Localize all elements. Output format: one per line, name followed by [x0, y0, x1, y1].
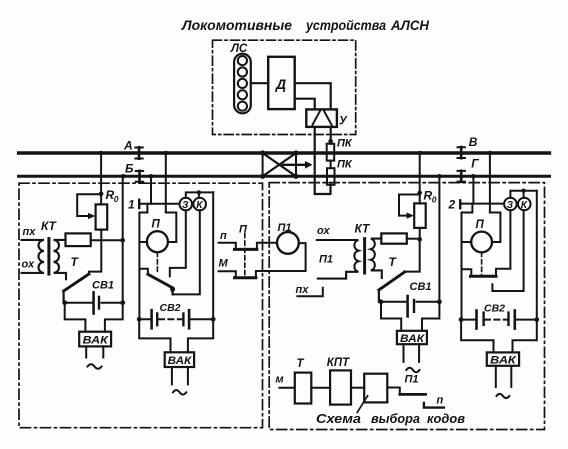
rail bond crossing	[263, 153, 296, 176]
battery СВ2 wire segments	[139, 318, 213, 320]
battery СВ1 short plate (white gap + bar)	[96, 301, 99, 304]
contact П lower (М to П1)	[219, 243, 306, 278]
lamp ЛС cell 1	[238, 56, 247, 65]
lamp unit ЛС body	[234, 54, 251, 114]
node rail В right	[488, 151, 493, 156]
leader line to caption	[357, 396, 367, 413]
wire terminal 1 to lamps	[139, 203, 179, 205]
locomotive equipment enclosure (dash-dot box)	[213, 40, 356, 134]
svg-text:П: П	[476, 219, 485, 231]
svg-text:п: п	[437, 395, 444, 407]
amplifier У triangle	[313, 111, 332, 125]
box КПТ	[330, 370, 351, 404]
insulated joint Г	[458, 171, 465, 182]
battery СВ1-2 short plate	[410, 300, 414, 303]
battery СВ1-2 wire	[381, 301, 439, 303]
receiving coil ПК lower	[327, 168, 335, 185]
resistor Ro1	[96, 204, 108, 229]
wire blade tip down	[62, 291, 64, 303]
node Ro2 top	[417, 191, 422, 196]
node СВ2 left	[137, 317, 142, 322]
node rail Г riser	[471, 174, 476, 179]
wire resistor2 to riser	[407, 238, 420, 240]
wire Ro1 to contact pivot	[89, 230, 101, 275]
rail top	[19, 151, 550, 154]
wire Т to КПТ	[311, 387, 330, 389]
amplifier У box	[306, 109, 337, 127]
transformer КТ1 core	[47, 239, 50, 275]
junction above ПК	[328, 139, 333, 144]
node bottom rail riser2	[437, 174, 442, 179]
battery СВ1-2 long plate	[406, 296, 409, 316]
rectifier ВАК3 box	[397, 331, 427, 344]
wire м to Т box	[279, 387, 294, 389]
lamp К circle	[193, 198, 206, 211]
node on rail A	[99, 151, 104, 156]
svg-text:м: м	[276, 374, 284, 386]
terminal 2 tick	[459, 200, 461, 208]
wire terminal 2 to lamps	[460, 203, 504, 205]
svg-text:Схема: Схема	[316, 411, 361, 426]
node battery right	[120, 300, 125, 305]
box selector	[364, 374, 387, 403]
wire З2 bottom to blade	[496, 210, 510, 276]
wire У to receiving coil ПК upper	[330, 127, 332, 144]
node К2 top	[521, 189, 525, 193]
resistor Ro2 slider loop	[399, 195, 420, 216]
blade tip tick	[172, 288, 174, 295]
svg-text:СВ2: СВ2	[484, 303, 505, 315]
receiving coil ПК upper	[327, 144, 335, 161]
relay П2 bracket	[462, 204, 501, 242]
wire rail В to Ro2	[419, 153, 421, 203]
wire rail Г to relay wire	[472, 176, 474, 203]
stub п output	[424, 403, 444, 408]
relay П armature link (dashed)	[156, 252, 158, 274]
node СВ2 right	[211, 317, 216, 322]
node СВ2-2 left	[459, 317, 464, 322]
svg-text:пх: пх	[296, 284, 310, 296]
node riser2 at resistor wire	[417, 237, 422, 242]
lamp ЛС cell 3	[238, 79, 247, 88]
svg-text:ох: ох	[317, 225, 330, 237]
wire З bottom to front contact	[170, 210, 186, 276]
node battery2 left	[379, 299, 384, 304]
ВАК4 output legs	[496, 366, 512, 387]
caption: Схема выбора кодов	[316, 411, 465, 426]
svg-text:ВАК: ВАК	[490, 355, 517, 367]
wire П2 left riser	[461, 242, 463, 320]
contact blade СВ1 unit2	[379, 272, 405, 290]
svg-text:П1: П1	[405, 374, 419, 386]
resistor series unit2	[381, 233, 407, 243]
AC symbol unit2	[406, 368, 419, 372]
battery СВ2 plates	[150, 310, 153, 328]
lamp З2 circle	[504, 198, 517, 211]
node Ro1 top	[99, 191, 104, 196]
travel direction arrow	[283, 164, 305, 166]
wire rail Г side to battery СВ1-2	[438, 176, 440, 301]
transformer КТ1 secondary winding	[54, 240, 67, 279]
title: Локомотивные устройства АЛСН	[181, 17, 430, 33]
battery СВ1 wire	[65, 302, 123, 304]
battery СВ1 long plate	[92, 292, 95, 313]
label Ro2	[424, 189, 437, 205]
contact П link (dashed)	[244, 234, 246, 278]
battery СВ2-2 dashed middle	[485, 319, 507, 321]
ВАК2 output legs	[172, 367, 188, 384]
rectifier ВАК4 box	[487, 352, 519, 365]
svg-text:П1: П1	[278, 222, 292, 234]
svg-text:п: п	[220, 230, 227, 242]
svg-text:П: П	[239, 224, 248, 236]
resistor Ro2 slider arrowhead	[407, 213, 414, 219]
wire lamp tops to СВ2 riser	[186, 192, 213, 197]
wire rail Б to battery СВ1	[122, 176, 124, 302]
wire rail В to relay П2 stub	[489, 153, 491, 213]
insulated joint А	[135, 147, 142, 158]
resistor Ro1 slider loop	[77, 194, 101, 216]
relay П bracket	[139, 204, 176, 242]
svg-text:Т: Т	[389, 255, 398, 269]
resistor Ro2	[414, 203, 426, 228]
svg-text:КТ: КТ	[355, 222, 372, 236]
relay П2 armature link (dashed)	[481, 252, 483, 275]
svg-text:КПТ: КПТ	[327, 357, 350, 369]
node СВ2-2 right	[534, 317, 539, 322]
wire ЛС to Д	[251, 82, 268, 84]
AC symbol unit П2	[497, 394, 510, 398]
ВАК3 output legs	[404, 344, 420, 362]
decoder box Д	[268, 57, 295, 109]
wire resistor to riser	[91, 239, 123, 241]
rectifier ВАК1 leads	[65, 303, 123, 332]
svg-text:СВ1: СВ1	[410, 281, 432, 293]
blade2 tip tick	[378, 290, 380, 302]
wire Ro2 to contact pivot	[405, 228, 420, 272]
svg-text:М: М	[219, 258, 229, 270]
lamp К2 circle	[518, 198, 531, 211]
rectifier ВАК4 leads	[461, 320, 537, 353]
rectifier ВАК2 leads	[139, 319, 213, 352]
left bay enclosure (dash-dot)	[19, 183, 263, 428]
label Ro1	[106, 188, 119, 204]
wire СВ2 right riser	[212, 192, 214, 319]
transformer КТ2 primary winding	[317, 240, 359, 279]
lamp З circle	[180, 198, 193, 211]
lamp ЛС cell 2	[238, 67, 247, 76]
lamp ЛС cell 4	[238, 90, 247, 99]
node riser at resistor wire	[120, 238, 125, 243]
insulated joint В	[458, 147, 465, 158]
resistor Ro1 slider arrowhead	[88, 213, 95, 219]
contact pivot branch 2	[462, 269, 472, 276]
blade tip node	[170, 287, 175, 292]
node on rail Б	[121, 174, 126, 179]
rectifier ВАК1 box	[79, 332, 111, 347]
coil link	[330, 161, 332, 169]
wire lamp2 tops to СВ2 riser	[510, 191, 536, 198]
rectifier ВАК3 leads	[381, 302, 439, 331]
wire К bottom to blade tip	[173, 210, 200, 294]
ВАК1 output legs	[86, 346, 103, 357]
rail bottom	[19, 175, 550, 178]
wire К2 bottom (open gap)	[492, 210, 523, 291]
box Т (code selection)	[295, 373, 312, 404]
wire rail Б to relay wire	[150, 176, 152, 204]
battery СВ2-2 plates	[475, 311, 478, 329]
wire rail A to Ro1	[100, 153, 102, 204]
node К top	[197, 190, 201, 194]
wire rail А to relay П right stub	[165, 153, 167, 213]
terminal 1 tick	[138, 200, 140, 208]
wire selector to П1 output	[387, 388, 400, 395]
svg-text:П1: П1	[319, 254, 333, 266]
node rail Б riser	[149, 174, 154, 179]
transformer КТ2 core	[363, 239, 366, 273]
relay П winding circle	[147, 231, 168, 252]
contact pivot branch	[139, 269, 148, 275]
battery СВ2 dashed middle	[159, 318, 182, 320]
transformer КТ2 secondary winding	[371, 239, 382, 278]
AC symbol unit П	[173, 390, 186, 394]
wire СВ2-2 right riser	[536, 191, 538, 320]
AC symbol unit1	[88, 364, 102, 369]
svg-text:0: 0	[432, 195, 437, 205]
transformer КТ1 primary winding	[22, 240, 44, 273]
svg-text:Т: Т	[297, 358, 305, 370]
battery СВ2-2 wire segments	[461, 319, 537, 321]
contact blade П2 (closed)	[471, 275, 497, 278]
wire Д to amplifier (lower)	[295, 99, 315, 110]
svg-text:2: 2	[448, 198, 456, 212]
relay П2 winding circle	[471, 232, 492, 253]
node battery2 right	[437, 299, 442, 304]
svg-text:выбора: выбора	[371, 411, 420, 426]
wire У to receiving coils (left leg)	[315, 127, 331, 194]
contact blade П unit	[148, 274, 173, 288]
node rail А right	[164, 151, 169, 156]
node battery left	[62, 300, 67, 305]
insulated joint Б	[136, 171, 143, 182]
svg-text:кодов: кодов	[427, 411, 465, 426]
wire Д to amplifier (upper)	[295, 83, 331, 109]
rectifier ВАК2 box	[165, 352, 194, 367]
contact blade СВ1 unit1	[64, 274, 89, 291]
node on rail В	[417, 151, 422, 156]
right bay enclosure (dash-dot)	[269, 183, 544, 430]
lamp ЛС cell 5	[238, 102, 247, 111]
wire КПТ to selector box	[351, 387, 364, 389]
stub пх right	[297, 288, 322, 297]
resistor series unit1	[66, 233, 91, 246]
relay П1 circle	[277, 232, 299, 254]
wire П left riser	[138, 242, 140, 319]
contact П upper (п to П1)	[219, 243, 277, 250]
